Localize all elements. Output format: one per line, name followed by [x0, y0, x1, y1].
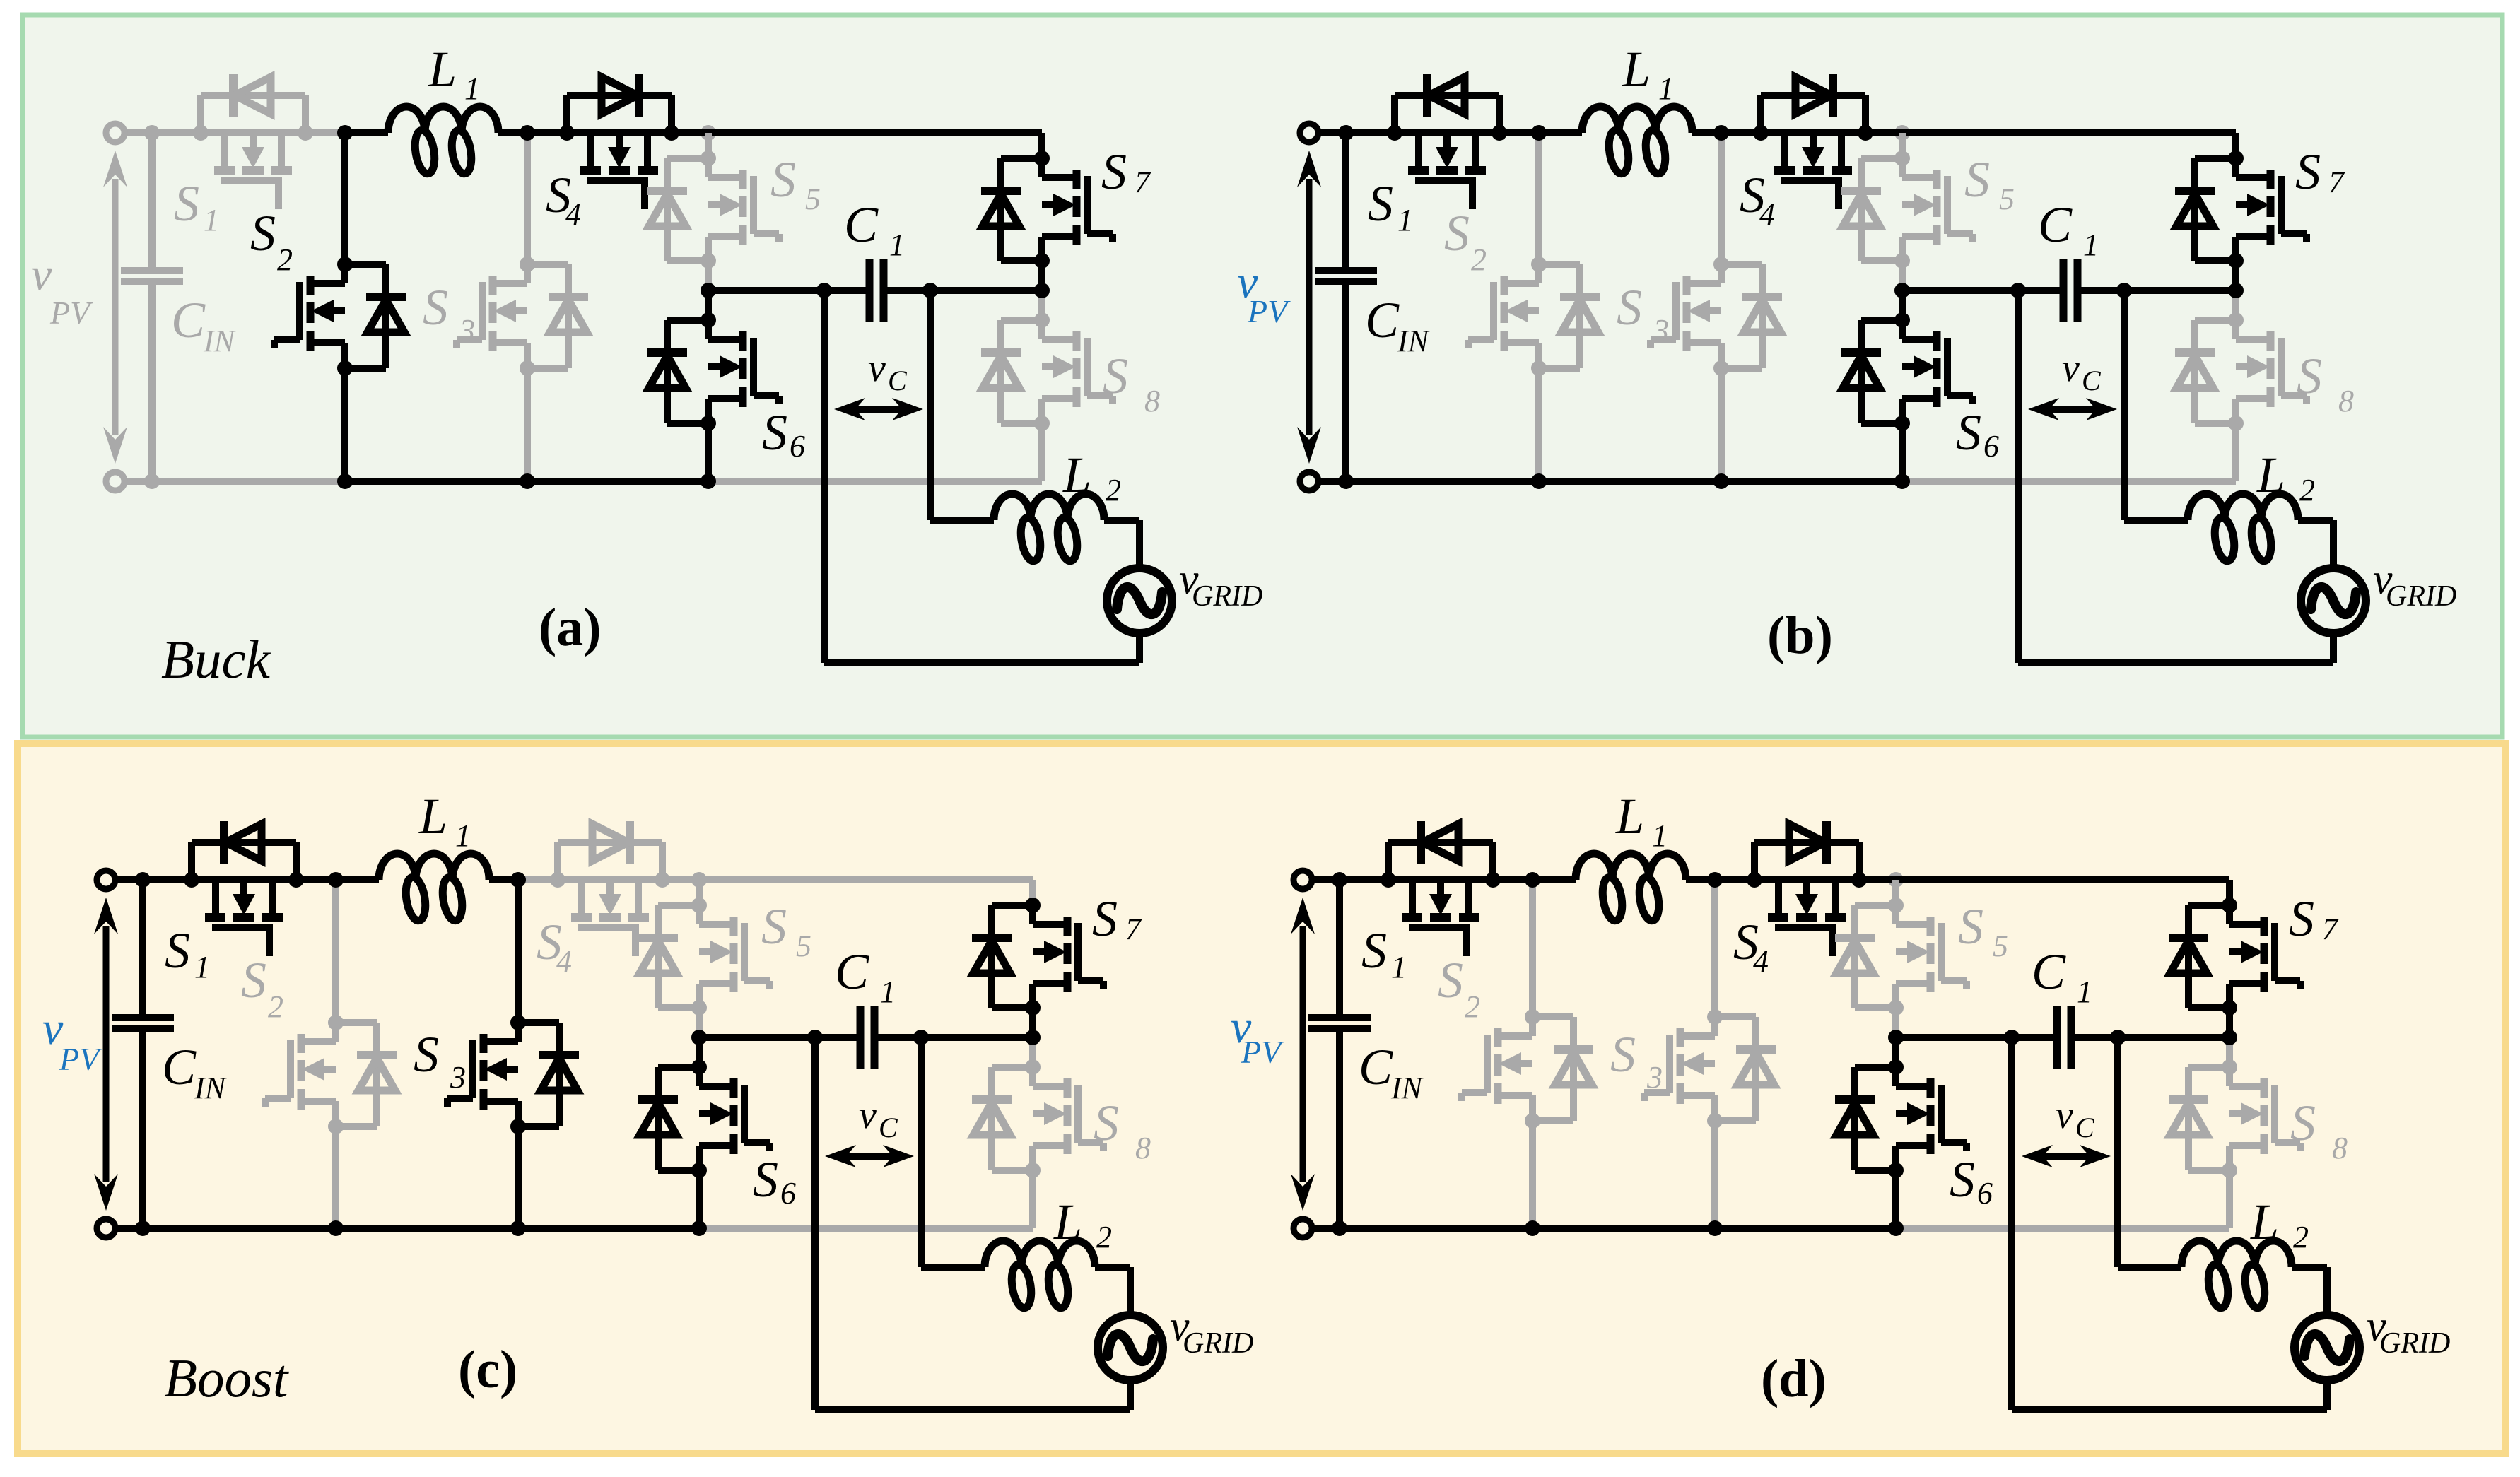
svg-text:S: S	[1092, 890, 1118, 947]
svg-text:8: 8	[2332, 1131, 2348, 1165]
svg-text:(b): (b)	[1767, 606, 1833, 665]
svg-text:C: C	[171, 292, 206, 348]
svg-text:6: 6	[1977, 1176, 1993, 1211]
svg-text:S: S	[1438, 952, 1463, 1008]
svg-text:3: 3	[1646, 1060, 1663, 1095]
svg-text:4: 4	[1759, 197, 1775, 232]
svg-text:S: S	[770, 151, 796, 208]
svg-text:1: 1	[1397, 203, 1413, 237]
svg-text:S: S	[1964, 151, 1990, 208]
svg-text:S: S	[1101, 143, 1127, 200]
svg-text:1: 1	[204, 203, 219, 237]
svg-text:S: S	[1610, 1026, 1636, 1083]
svg-text:PV: PV	[1247, 293, 1291, 329]
svg-text:S: S	[2297, 348, 2322, 404]
svg-text:1: 1	[455, 818, 471, 853]
svg-text:2: 2	[1106, 473, 1121, 507]
svg-text:S: S	[762, 404, 787, 461]
svg-text:IN: IN	[1397, 324, 1431, 358]
svg-text:L: L	[1622, 41, 1651, 98]
svg-text:L: L	[418, 788, 447, 845]
svg-text:PV: PV	[49, 295, 93, 331]
svg-text:7: 7	[2322, 912, 2339, 946]
svg-text:S: S	[761, 898, 787, 955]
svg-text:S: S	[241, 952, 266, 1008]
svg-text:GRID: GRID	[2379, 1327, 2450, 1360]
svg-text:3: 3	[450, 1060, 466, 1095]
svg-text:C: C	[879, 1112, 898, 1143]
svg-text:1: 1	[2077, 975, 2092, 1009]
svg-text:C: C	[2075, 1112, 2095, 1143]
svg-text:1: 1	[464, 71, 480, 106]
svg-text:4: 4	[1753, 944, 1769, 979]
svg-text:IN: IN	[1390, 1071, 1424, 1105]
svg-text:C: C	[2032, 943, 2066, 1000]
svg-text:S: S	[2290, 1095, 2316, 1151]
svg-text:Boost: Boost	[164, 1348, 289, 1408]
svg-text:GRID: GRID	[1183, 1327, 1253, 1360]
svg-text:C: C	[2082, 365, 2102, 396]
svg-text:6: 6	[790, 429, 805, 464]
svg-text:L: L	[2250, 1194, 2279, 1250]
svg-text:PV: PV	[1241, 1034, 1284, 1070]
svg-text:5: 5	[1999, 182, 2015, 216]
svg-text:6: 6	[1983, 429, 1999, 464]
svg-text:L: L	[1062, 447, 1091, 503]
svg-text:S: S	[1950, 1151, 1975, 1208]
svg-text:1: 1	[1658, 71, 1674, 106]
svg-text:L: L	[1053, 1194, 1082, 1250]
svg-text:8: 8	[2338, 384, 2354, 418]
svg-text:1: 1	[1391, 950, 1407, 984]
svg-text:C: C	[1359, 1039, 1393, 1095]
svg-text:7: 7	[1125, 912, 1142, 946]
svg-text:IN: IN	[194, 1071, 228, 1105]
svg-text:7: 7	[2328, 165, 2345, 199]
svg-text:PV: PV	[59, 1041, 102, 1077]
svg-text:L: L	[428, 41, 457, 98]
svg-text:2: 2	[268, 989, 283, 1024]
svg-text:S: S	[1617, 279, 1642, 336]
svg-text:S: S	[1103, 348, 1128, 404]
svg-text:C: C	[162, 1039, 197, 1095]
svg-text:S: S	[414, 1026, 439, 1083]
svg-text:S: S	[1094, 1095, 1119, 1151]
svg-text:1: 1	[194, 950, 210, 984]
svg-text:S: S	[250, 205, 276, 261]
svg-text:8: 8	[1135, 1131, 1151, 1165]
svg-text:2: 2	[2293, 1220, 2309, 1254]
svg-text:8: 8	[1144, 384, 1160, 418]
svg-text:S: S	[174, 175, 199, 232]
svg-text:S: S	[1956, 404, 1981, 461]
svg-text:5: 5	[1993, 929, 2008, 963]
svg-text:1: 1	[880, 975, 896, 1009]
svg-text:5: 5	[796, 929, 811, 963]
svg-text:2: 2	[1471, 242, 1487, 277]
svg-text:v: v	[2056, 1093, 2073, 1137]
svg-text:S: S	[1958, 898, 1983, 955]
svg-text:4: 4	[565, 197, 581, 232]
svg-text:2: 2	[1096, 1220, 1112, 1254]
svg-text:(c): (c)	[458, 1340, 517, 1399]
svg-text:v: v	[868, 346, 886, 390]
svg-text:5: 5	[805, 182, 821, 216]
svg-text:C: C	[844, 196, 879, 253]
svg-text:(d): (d)	[1761, 1349, 1827, 1408]
svg-text:S: S	[1444, 205, 1470, 261]
svg-text:L: L	[2256, 447, 2285, 503]
svg-text:3: 3	[1653, 313, 1669, 348]
svg-text:S: S	[423, 279, 448, 336]
svg-text:v: v	[2062, 346, 2080, 390]
svg-text:S: S	[1368, 175, 1393, 232]
svg-text:C: C	[2038, 196, 2073, 253]
svg-text:S: S	[753, 1151, 778, 1208]
svg-text:1: 1	[889, 228, 905, 262]
svg-text:1: 1	[2083, 228, 2099, 262]
svg-text:6: 6	[780, 1176, 796, 1211]
svg-text:IN: IN	[203, 324, 237, 358]
svg-text:C: C	[835, 943, 869, 1000]
svg-text:7: 7	[1135, 165, 1151, 199]
svg-text:S: S	[165, 922, 190, 979]
svg-text:v: v	[859, 1093, 877, 1137]
svg-text:4: 4	[556, 944, 572, 979]
svg-text:1: 1	[1652, 818, 1668, 853]
svg-text:GRID: GRID	[2386, 580, 2456, 613]
svg-text:S: S	[2295, 143, 2321, 200]
svg-text:2: 2	[1465, 989, 1480, 1024]
svg-text:3: 3	[459, 313, 475, 348]
svg-text:2: 2	[277, 242, 293, 277]
svg-text:v: v	[31, 249, 52, 300]
svg-text:S: S	[2289, 890, 2314, 947]
svg-text:C: C	[1365, 292, 1400, 348]
svg-text:C: C	[888, 365, 908, 396]
svg-text:Buck: Buck	[161, 629, 271, 690]
svg-text:L: L	[1615, 788, 1644, 845]
svg-text:S: S	[1361, 922, 1387, 979]
svg-text:(a): (a)	[539, 598, 602, 657]
svg-text:GRID: GRID	[1192, 580, 1262, 613]
svg-text:2: 2	[2299, 473, 2315, 507]
